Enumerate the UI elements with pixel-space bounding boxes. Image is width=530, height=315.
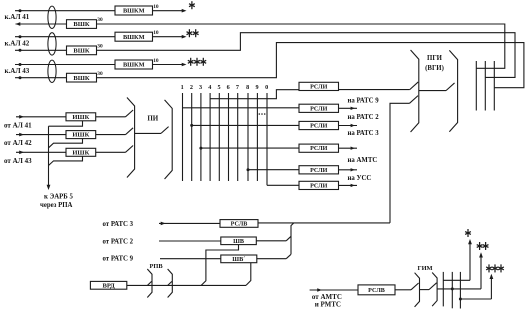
block РСЛИ1	[299, 82, 339, 90]
block ИШК2	[66, 131, 96, 139]
svg-text:к.АЛ 42: к.АЛ 42	[5, 40, 30, 48]
wire: line to ВШК2 (к.АЛ 42 lower)	[15, 49, 67, 51]
svg-text:от АЛ 42: от АЛ 42	[4, 139, 32, 147]
wire: от АЛ 41 line into ИШК1	[16, 116, 126, 118]
wire: ВШК2 trunk to ПГИ bundle (top route 2)	[97, 33, 516, 78]
block ВШКМ1	[115, 6, 153, 15]
wire: от РАТС 9 line	[160, 258, 221, 260]
block РСЛИ2	[299, 104, 339, 112]
node: asterisk marker x3 (ВШКМ3)	[190, 58, 192, 66]
svg-text:ВШКМ: ВШКМ	[123, 62, 145, 69]
wire: ПГИ wiper link	[419, 90, 446, 92]
selector ПИ right field bracket	[165, 100, 173, 179]
wire: ГИМ wiper link	[420, 289, 430, 291]
selector ПИ left field bracket	[127, 97, 135, 177]
selector РПВ bracket 2	[168, 269, 173, 298]
wire: riser from РСЛВ/ШВ merge to ВГИ input	[291, 222, 390, 224]
wire: hook into ПИ field (row 1)	[126, 110, 134, 117]
block ВРД	[90, 281, 126, 289]
wire: от РАТС 2 line	[159, 240, 221, 242]
svg-text:1: 1	[181, 84, 184, 91]
svg-text:на УСС: на УСС	[348, 175, 372, 182]
svg-text:6: 6	[227, 84, 230, 91]
wire: riser arrow 3 (***)	[490, 275, 492, 299]
node: asterisk marker x3 (bottom)	[488, 264, 490, 272]
wire: ГИМ bundle vertical 1	[442, 272, 444, 307]
wire: ГИМ bundle vertical 3	[459, 272, 461, 309]
wire: ШВ1 bottom drop to ВРД bus	[201, 245, 238, 286]
node: asterisk marker x2 (bottom)	[479, 242, 481, 250]
wire: line to ВШКМ2 (к.АЛ 42 upper)	[15, 36, 115, 38]
wire: grid H6 to РСЛИ6	[267, 184, 299, 186]
svg-text:РСЛИ: РСЛИ	[310, 146, 328, 152]
svg-text:РСЛВ: РСЛВ	[231, 221, 248, 227]
svg-text:и РМТС: и РМТС	[315, 301, 341, 309]
svg-text:от РАТС 2: от РАТС 2	[103, 238, 134, 245]
selector ПГИ left field bracket	[411, 50, 419, 132]
svg-text:на РАТС 9: на РАТС 9	[348, 98, 380, 105]
wire: РПВ hook 1	[147, 281, 151, 285]
svg-text:ВШК: ВШК	[73, 75, 89, 82]
wire: line to ВШК1 (к.АЛ 41 lower)	[16, 23, 67, 25]
wire: ВШКМ2 output with arrow	[153, 36, 185, 38]
svg-text:ВШКМ: ВШКМ	[123, 8, 145, 15]
svg-text:на РАТС 3: на РАТС 3	[348, 130, 380, 137]
wire: hook into ПИ field (row 3)	[126, 146, 134, 153]
svg-text:0: 0	[265, 84, 268, 91]
block ШВ1	[221, 237, 256, 245]
svg-text:ПИ: ПИ	[147, 114, 158, 122]
svg-text:на АМТС: на АМТС	[348, 157, 378, 164]
node: asterisk marker x1 (ВШКМ1)	[191, 1, 193, 9]
wire: grid H2 to РСЛИ2	[183, 107, 300, 109]
svg-text:4: 4	[208, 84, 211, 91]
svg-text:ИШК: ИШК	[72, 114, 89, 121]
wire: grid H5 to РСЛИ5	[248, 169, 299, 171]
wire: riser arrow 1 (*)	[469, 241, 471, 280]
svg-text:РСЛИ: РСЛИ	[310, 183, 328, 189]
node: ellipsis dots	[259, 113, 261, 115]
svg-text:30: 30	[97, 17, 103, 23]
svg-text:ГИМ: ГИМ	[418, 265, 433, 272]
wire: common test bus down with arrow	[48, 126, 50, 185]
wire: ВШК1 trunk to ПГИ bundle (top route 1)	[97, 24, 505, 68]
svg-text:от АМТС: от АМТС	[312, 293, 342, 301]
svg-text:к.АЛ 41: к.АЛ 41	[5, 13, 30, 21]
block ВШК2	[67, 46, 97, 55]
node: asterisk marker x1 (bottom)	[467, 229, 469, 237]
svg-text:от АЛ 41: от АЛ 41	[4, 122, 32, 130]
wire: от АЛ 43 line into ИШК3	[16, 151, 126, 153]
block ВШКМ3	[115, 60, 153, 69]
svg-text:10: 10	[153, 30, 159, 36]
block РСЛИ4	[299, 144, 339, 152]
svg-text:ШВ: ШВ	[233, 238, 244, 245]
svg-text:ВШК: ВШК	[73, 21, 89, 28]
svg-text:РСЛИ: РСЛИ	[310, 168, 328, 174]
wire: bundle link to riser 3	[460, 298, 491, 300]
wire: line to ВШКМ1 (к.АЛ 41 upper)	[15, 10, 115, 12]
svg-text:8: 8	[246, 84, 249, 91]
wire: РСЛИ5 output arrow	[339, 169, 358, 171]
wire: РСЛИ6 output arrow	[339, 184, 358, 186]
wire: ВШК3 trunk to ПГИ bundle (top route 3)	[97, 43, 524, 88]
svg-text:от РАТС 3: от РАТС 3	[103, 221, 134, 228]
wire: bundle link to riser 1	[443, 279, 470, 281]
svg-text:30: 30	[97, 71, 103, 77]
wire: hook into ПИ field (row 2)	[126, 128, 134, 135]
wire: ВШКМ1 output with arrow	[153, 10, 185, 12]
svg-text:на РАТС 2: на РАТС 2	[348, 114, 380, 121]
wire: ВШКМ3 output with arrow	[153, 64, 185, 66]
wire: ГИМ output bus	[438, 288, 482, 290]
svg-text:5: 5	[217, 84, 220, 91]
selector ПГИ right field bracket	[449, 50, 457, 131]
svg-text:ВРД: ВРД	[102, 282, 115, 289]
wire: ШВ2 bottom drop to ВРД bus	[246, 263, 251, 286]
wire: line to ВШКМ3 (к.АЛ 43 upper)	[15, 64, 115, 66]
wire: от РАТС 3 line	[159, 222, 220, 224]
svg-text:РСЛИ: РСЛИ	[310, 106, 328, 112]
svg-text:к ЭАРБ 5: к ЭАРБ 5	[44, 194, 73, 201]
block РСЛВ (от РАТС 3)	[220, 220, 258, 228]
wire: от АЛ 42 line into ИШК2	[16, 134, 126, 136]
svg-text:ИШК: ИШК	[72, 149, 89, 156]
block ВШК3	[67, 73, 97, 82]
wire: ИШК3 test drop	[49, 156, 83, 165]
wire: grid H3 to РСЛИ3	[192, 124, 299, 126]
svg-text:через РПА: через РПА	[40, 202, 73, 209]
svg-text:9: 9	[256, 84, 259, 91]
wire: ПИ wiper link	[135, 132, 161, 134]
svg-text:ВШКМ: ВШКМ	[123, 34, 145, 41]
svg-text:ИШК: ИШК	[72, 132, 89, 139]
svg-text:30: 30	[97, 44, 103, 50]
wire: grid verticals 1-0	[182, 93, 184, 181]
node: asterisk marker x2 (ВШКМ2)	[188, 29, 190, 37]
wire: ИШК1 test drop	[49, 121, 83, 126]
svg-text:7: 7	[236, 84, 239, 91]
svg-text:к.АЛ 43: к.АЛ 43	[5, 67, 30, 75]
svg-text:РСЛИ: РСЛИ	[310, 84, 328, 90]
selector ГИМ bracket 1	[415, 273, 420, 307]
svg-text:10: 10	[153, 4, 159, 10]
selector РПВ bracket 1	[147, 269, 152, 298]
subscriber line oval 1	[48, 6, 56, 28]
svg-text:РПВ: РПВ	[150, 263, 164, 270]
svg-text:ВШК: ВШК	[73, 47, 89, 54]
block РСЛВ (от АМТС)	[358, 285, 395, 295]
svg-text:(ВГИ): (ВГИ)	[425, 65, 444, 72]
block ВШКМ2	[115, 32, 153, 41]
wire: grid H4 to РСЛИ4	[201, 147, 299, 149]
block РСЛИ6	[299, 181, 339, 189]
svg-text:3: 3	[199, 84, 202, 91]
svg-text:от АЛ 43: от АЛ 43	[4, 157, 32, 165]
wire: РСЛИ3 output arrow	[339, 125, 358, 127]
subscriber line oval 2	[48, 33, 56, 55]
svg-text:РСЛИ: РСЛИ	[310, 124, 328, 130]
wire: РСЛИ1 output to ПГИ	[339, 89, 410, 91]
wire: merge riser x291	[291, 223, 294, 254]
wire: ИШК2 test drop	[49, 139, 83, 148]
svg-text:ПГИ: ПГИ	[427, 55, 443, 62]
svg-text:2: 2	[190, 84, 193, 91]
svg-text:РСЛВ: РСЛВ	[368, 288, 385, 294]
svg-text:от РАТС 9: от РАТС 9	[103, 256, 134, 263]
svg-text:10: 10	[153, 58, 159, 64]
wire: grid H1 to РСЛИ1 (stepped)	[210, 90, 299, 99]
selector ГИМ bracket 2	[432, 272, 437, 306]
wire: ПГИ output bundle vertical 3	[493, 61, 495, 111]
subscriber line oval 3	[48, 60, 56, 82]
wire: РСЛВ output to ГИМ	[395, 289, 411, 291]
block ШВ2	[221, 255, 257, 263]
svg-text:ШВ´: ШВ´	[232, 256, 245, 263]
block РСЛИ3	[299, 121, 339, 129]
wire: РСЛИ2 output arrow	[339, 107, 358, 109]
wire: РПВ hook 2	[168, 281, 172, 285]
wire: РСЛВ output to merge	[258, 222, 291, 224]
block ИШК3	[66, 148, 96, 156]
node: junction dot on bus	[451, 287, 454, 290]
wire: от АМТС line	[310, 289, 358, 291]
wire: ПГИ output bundle vertical 1	[475, 61, 477, 111]
wire: line to ВШК3 (к.АЛ 43 lower)	[15, 77, 67, 79]
wire: ГИМ bundle vertical 2	[451, 272, 453, 308]
wire: riser arrow 2 (**)	[480, 254, 482, 289]
wire: РСЛИ4 output arrow	[339, 147, 358, 149]
wire: ШВ1 output to merge	[256, 240, 286, 242]
wire: ШВ2 output to merge	[257, 258, 286, 260]
block ИШК1	[66, 113, 96, 121]
wire: ПГИ output bundle vertical 2	[484, 61, 486, 111]
block ВШК1	[67, 20, 97, 29]
block РСЛИ5	[299, 166, 339, 174]
wire: ВРД bus	[127, 284, 246, 286]
